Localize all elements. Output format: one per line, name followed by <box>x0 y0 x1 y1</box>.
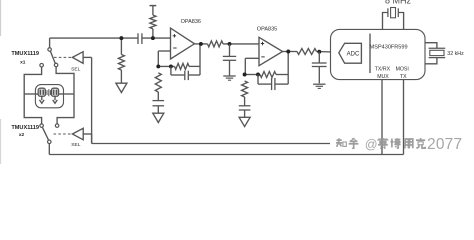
wire stubs inside capsule <box>35 93 38 95</box>
MUX bus <box>92 143 330 145</box>
svg-text:2077: 2077 <box>427 136 462 153</box>
left edge artifact lines <box>0 0 2 36</box>
resistor R5 series out U1 <box>208 41 224 47</box>
svg-text:OPA836: OPA836 <box>181 19 201 25</box>
wire: inverting input U1 <box>158 50 170 52</box>
wire: x2 pole to TX bus <box>48 144 50 155</box>
svg-text:TX/RX: TX/RX <box>375 67 391 73</box>
op-amp U1 OPA836 <box>171 28 195 59</box>
TX bus (bottom) <box>49 154 403 156</box>
op-amp U2 OPA835 <box>259 37 283 65</box>
crystal Y1 8 MHz <box>383 13 388 30</box>
buffer SEL x1 <box>72 52 83 64</box>
node: interstage <box>228 42 232 46</box>
buffer SEL x2 <box>72 128 83 140</box>
transducer XDCR1 <box>38 88 45 96</box>
dashed SEL control x1 <box>54 56 72 58</box>
feedback resistor R3 <box>158 65 174 67</box>
svg-text:TX: TX <box>400 74 407 80</box>
sound waves <box>46 90 48 95</box>
MCU MSP430FR599 box <box>331 29 426 79</box>
svg-text:x2: x2 <box>19 132 25 138</box>
switch TMUX1119 x2 <box>43 128 49 141</box>
feedback capacitor C2 <box>170 66 172 75</box>
capacitor C7 to ground <box>318 52 320 63</box>
node: U2 output <box>286 50 290 54</box>
wire: U1 output/feedback node <box>199 44 201 75</box>
svg-text:MOSI: MOSI <box>396 67 409 73</box>
transducer XDCR2 <box>51 88 58 96</box>
wire: x1 right throw to right transducer <box>56 67 74 124</box>
capacitor C3 gain-set <box>153 100 165 102</box>
svg-text:MUX: MUX <box>377 74 389 80</box>
svg-text:MSP430FR599: MSP430FR599 <box>370 45 408 51</box>
wire: U2 output/feedback node <box>287 52 289 85</box>
node: ADC input <box>317 50 321 54</box>
wire: RX line from mux x1 pole up to amp chain <box>49 38 51 48</box>
svg-text:32 kHz: 32 kHz <box>447 51 464 57</box>
crystal Y2 32 kHz <box>425 43 437 49</box>
svg-text:@: @ <box>365 138 378 152</box>
wire: TX pin down <box>403 80 405 155</box>
wire: inverting input U2 <box>245 57 259 59</box>
resistor R7 gain-set <box>242 81 248 97</box>
svg-text:x1: x1 <box>20 59 26 65</box>
svg-text:ADC: ADC <box>347 52 360 58</box>
node: U1 inverting / C2 tap <box>156 64 160 68</box>
transducer pair capsule <box>35 85 63 108</box>
svg-text:8 MHz: 8 MHz <box>385 0 412 5</box>
wire: SEL x2 to MUX bus <box>91 134 93 144</box>
feedback capacitor C5 <box>257 75 259 85</box>
wire: MUX pin down <box>381 80 383 155</box>
ground below C3 <box>153 113 164 122</box>
svg-text:TMUX1119: TMUX1119 <box>11 51 39 57</box>
svg-text:TMUX1119: TMUX1119 <box>11 125 39 131</box>
feedback resistor R6 <box>245 74 260 76</box>
svg-text:OPA835: OPA835 <box>257 26 277 32</box>
wire: SEL x1 down to MUX bus <box>91 57 93 143</box>
resistor R2 pull-up <box>150 5 157 7</box>
ground below R1 <box>116 83 127 92</box>
node: bias junction <box>151 36 155 40</box>
capacitor C4 to ground <box>229 44 231 57</box>
node: input junction <box>119 36 123 40</box>
resistor R4 gain-set <box>155 73 161 92</box>
watermark zhihu <box>336 138 425 149</box>
capacitor C6 gain-set <box>239 105 251 107</box>
svg-text:SEL: SEL <box>71 66 81 72</box>
resistor R1 input bias <box>120 38 122 54</box>
node: U2 inverting / C5 tap <box>243 73 247 77</box>
dashed SEL control x2 <box>54 133 72 135</box>
ground below C6 <box>239 117 250 126</box>
divider line <box>369 34 371 73</box>
ground below C7 <box>313 83 325 85</box>
resistor R8 series out U2 <box>297 49 317 55</box>
node: U1 output <box>199 42 203 46</box>
switch TMUX1119 x1 <box>50 51 55 63</box>
ADC block <box>339 43 362 63</box>
wire: x1 left throw to left transducer <box>24 67 41 124</box>
capacitor C1 coupling <box>137 33 139 44</box>
ground below C4 <box>223 75 235 77</box>
svg-text:SEL: SEL <box>71 142 81 148</box>
